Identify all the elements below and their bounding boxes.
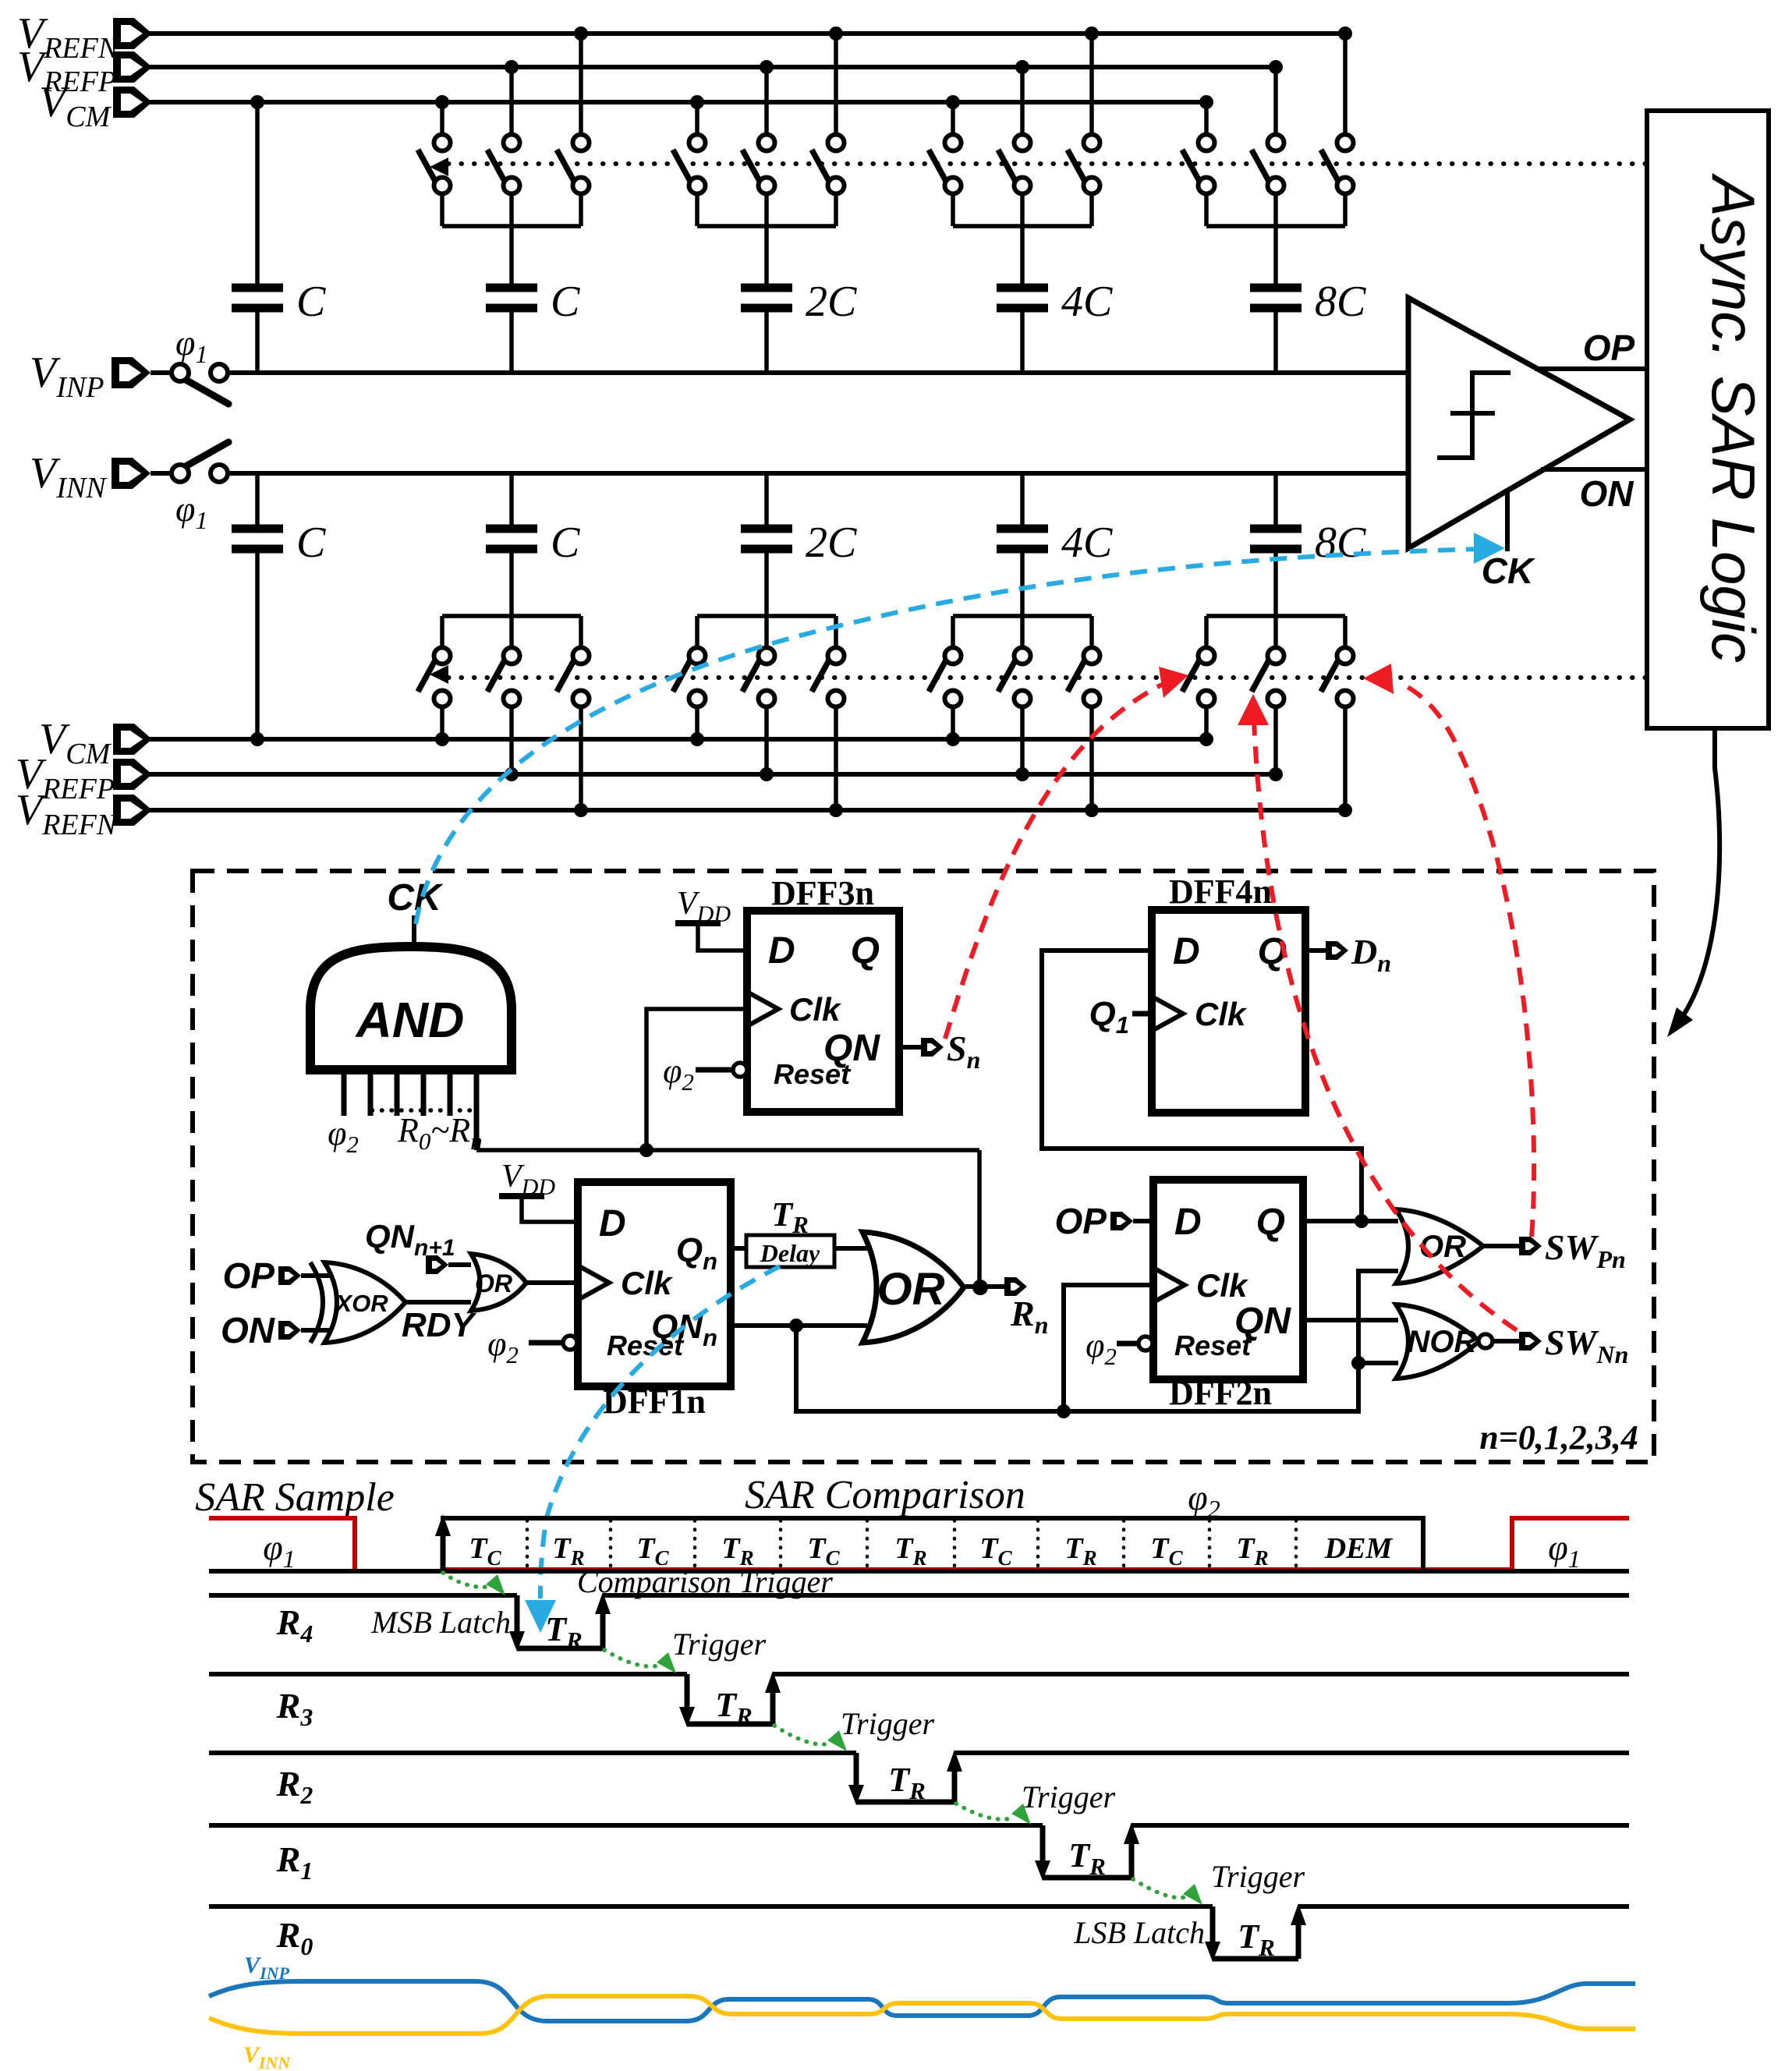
capacitor 2C (top) [741, 278, 857, 373]
svg-text:ON: ON [1580, 473, 1634, 514]
comparison box [443, 1518, 1423, 1571]
wire Delay to OR2 [834, 1246, 867, 1251]
blue dashed arrow Delay to timing R4 [525, 1266, 780, 1633]
switch group for 8C (bottom) [1182, 553, 1354, 817]
switch group for C2 (bottom) [418, 553, 590, 817]
svg-text:C: C [296, 278, 326, 326]
phi1 waveform (red) [209, 1518, 1629, 1571]
DFF2n [1153, 1180, 1303, 1412]
svg-text:DFF2n: DFF2n [1169, 1374, 1272, 1412]
svg-text:Clk: Clk [1196, 1267, 1249, 1304]
svg-text:D: D [1174, 1202, 1202, 1243]
capacitor 8C (bottom) [1250, 473, 1366, 567]
input Q1 (DFF4n clock) [1089, 995, 1152, 1039]
capacitor 4C (bottom) [997, 473, 1113, 567]
dotted marks between AND inputs [372, 1108, 476, 1113]
svg-text:XOR: XOR [334, 1290, 388, 1317]
wire CK input of comparator [1505, 490, 1510, 551]
svg-text:SAR Comparison: SAR Comparison [745, 1473, 1025, 1517]
node VREFN (bottom rail) [113, 795, 1345, 826]
row R3 waveform [209, 1671, 1629, 1727]
switch group for C2 (top) [418, 27, 590, 284]
svg-text:R0~Rn: R0~Rn [397, 1111, 483, 1155]
node VREFP (bottom rail) [113, 759, 1276, 790]
wire to NOR lower input [1358, 1361, 1398, 1365]
green trigger arrow 4 [956, 1804, 1031, 1825]
svg-text:Async. SAR Logic: Async. SAR Logic [1699, 173, 1768, 663]
svg-text:4C: 4C [1061, 278, 1113, 326]
row R0 waveform [209, 1903, 1629, 1962]
gate OR (SWPn) [1396, 1209, 1483, 1283]
svg-text:Trigger: Trigger [1211, 1859, 1305, 1894]
wire Rn bus to AND [476, 1143, 979, 1157]
svg-text:D: D [1173, 931, 1200, 972]
capacitor 4C (top) [997, 278, 1113, 373]
sampling switch phi1 (VINN) [172, 442, 228, 482]
svg-text:Clk: Clk [621, 1265, 674, 1301]
svg-text:Trigger: Trigger [1022, 1779, 1115, 1814]
svg-text:DEM: DEM [1324, 1532, 1394, 1565]
node VCM (top rail) [113, 87, 1206, 118]
svg-text:Q: Q [851, 930, 880, 972]
output pin SWNn [1493, 1322, 1628, 1368]
svg-text:NOR: NOR [1408, 1325, 1477, 1359]
green trigger arrow 5 [1133, 1879, 1202, 1905]
reset phi2 (DFF1n) [487, 1325, 577, 1368]
supply VDD (DFF3n) [675, 886, 747, 951]
svg-text:AND: AND [355, 992, 465, 1048]
svg-text:Delay: Delay [760, 1239, 820, 1267]
wire VINN bottom plate line [228, 471, 1408, 476]
input pin OP (XOR) [223, 1255, 334, 1296]
wire XOR out to OR [405, 1300, 471, 1305]
reset phi2 (DFF2n) [1085, 1326, 1153, 1370]
svg-text:Trigger: Trigger [841, 1706, 934, 1741]
row R2 waveform [209, 1750, 1629, 1805]
svg-text:OR: OR [877, 1264, 945, 1315]
blue dashed arrow CK to comparator [416, 533, 1505, 924]
wire DFF2n Q to OR3 [1303, 1214, 1398, 1228]
gate AND [310, 947, 512, 1070]
switch group for 8C (top) [1182, 27, 1354, 284]
output pin SWPn [1481, 1227, 1626, 1273]
svg-text:CK: CK [1482, 550, 1535, 591]
reset phi2 (DFF3n) [663, 1052, 747, 1096]
svg-text:4C: 4C [1061, 519, 1113, 567]
DFF1n [578, 1182, 731, 1421]
svg-text:LSB Latch: LSB Latch [1073, 1915, 1205, 1950]
node VREFN (top rail) [113, 18, 1345, 49]
svg-text:8C: 8C [1315, 278, 1366, 326]
svg-text:OP: OP [1055, 1201, 1107, 1241]
waveform VINP (blue) [209, 1981, 1635, 2021]
capacitor C1 (top) [232, 278, 326, 373]
switch group for 4C (bottom) [929, 553, 1100, 817]
svg-text:Clk: Clk [1195, 996, 1248, 1032]
svg-text:2C: 2C [806, 278, 857, 326]
row R1 waveform [209, 1822, 1629, 1881]
input pin VINN [30, 449, 172, 504]
input pin OP (DFF2n) [1055, 1201, 1153, 1241]
AND input stubs [344, 1074, 476, 1150]
dashed box (bit cell) [193, 871, 1654, 1462]
wire VINP top plate line [228, 370, 1408, 375]
green trigger arrow 2 [604, 1650, 676, 1673]
gate OR (Rn generator) [862, 1232, 964, 1343]
capacitor C2 (top) [486, 278, 580, 373]
svg-text:OR: OR [1419, 1230, 1466, 1264]
baseline row phi [209, 1569, 1629, 1574]
svg-text:Reset: Reset [1174, 1329, 1252, 1361]
cell separators (dotted) [527, 1521, 1296, 1569]
output pin Rn [965, 1277, 1048, 1339]
svg-text:CK: CK [387, 877, 444, 919]
sampling switch phi1 (VINP) [172, 364, 228, 404]
switch group for 2C (bottom) [673, 553, 845, 817]
selector dotted line (top switch bank) [430, 158, 1647, 176]
green trigger arrow 3 [774, 1726, 847, 1751]
svg-text:C: C [551, 519, 580, 567]
capacitor C2 (bottom) [486, 473, 580, 567]
junction QNn bus / DFF2n clk [1057, 1404, 1071, 1418]
svg-text:DFF3n: DFF3n [771, 874, 874, 912]
svg-text:Q: Q [1256, 1202, 1285, 1243]
wire VCM to capacitor C1 top [250, 95, 264, 284]
input pin VINP [30, 349, 172, 404]
wire ON output [1541, 467, 1647, 472]
comparison trigger up arrow [435, 1514, 451, 1571]
svg-text:C: C [551, 278, 580, 326]
svg-text:DFF4n: DFF4n [1169, 873, 1272, 911]
gate OR (ready) [471, 1254, 526, 1311]
delay block TR [746, 1195, 834, 1267]
input pin QNn+1 [365, 1218, 471, 1274]
svg-text:ON: ON [221, 1310, 275, 1351]
row R4 waveform [209, 1592, 1629, 1651]
svg-text:OR: OR [475, 1269, 512, 1297]
svg-text:Reset: Reset [774, 1058, 852, 1090]
wire DFF2n QN to NOR [1303, 1318, 1398, 1322]
red dashed arrow SWNn to bottom switch (middle) [1238, 694, 1517, 1330]
wire OR out to DFF1n Clk [526, 1280, 578, 1285]
wire DFF4n D feedback from DFF2n Q [1042, 951, 1362, 1221]
svg-text:MSB Latch: MSB Latch [370, 1605, 511, 1640]
wire bus to DFF3n Clk [646, 1009, 747, 1150]
gate NOR (SWNn) [1396, 1305, 1493, 1379]
DFF4n [1152, 873, 1305, 1113]
junction NOR lower input [1351, 1356, 1365, 1370]
svg-text:C: C [296, 519, 326, 567]
wire OP output [1535, 366, 1647, 371]
output pin Dn [1305, 932, 1391, 977]
cell labels [469, 1532, 1393, 1570]
svg-text:D: D [599, 1203, 626, 1244]
red dashed arrow Sn to bottom switch (left) [945, 667, 1188, 1039]
capacitor 2C (bottom) [741, 473, 857, 567]
switch group for 4C (top) [929, 27, 1100, 284]
wire QNn down to lower bus [796, 1271, 1398, 1411]
selector dotted line (bottom switch bank) [430, 665, 1647, 684]
wire bus to DFF2n Clk [1064, 1285, 1153, 1411]
capacitor 8C (top) [1250, 278, 1366, 373]
svg-text:RDY: RDY [402, 1306, 477, 1344]
node VCM (bottom rail) [113, 724, 1206, 755]
switch group for 2C (top) [673, 27, 845, 284]
svg-text:OP: OP [223, 1255, 275, 1296]
input pin ON (XOR) [221, 1310, 334, 1351]
svg-text:2C: 2C [806, 519, 857, 567]
capacitor C1 (bottom) [232, 473, 326, 746]
wire Qn to Delay [731, 1246, 746, 1251]
arrow from Async SAR Logic to cell logic [1667, 728, 1719, 1037]
svg-text:SAR Sample: SAR Sample [195, 1475, 395, 1520]
svg-text:Clk: Clk [789, 991, 842, 1028]
green trigger arrow 1 [443, 1573, 505, 1595]
red dashed arrow SWPn to bottom switch (right) [1363, 664, 1534, 1237]
waveform VINN (yellow) [209, 1996, 1635, 2034]
svg-text:OP: OP [1583, 327, 1635, 368]
wire CK to AND [412, 915, 416, 947]
DFF3n [747, 874, 899, 1112]
output pin Sn [899, 1028, 980, 1074]
svg-text:Trigger: Trigger [672, 1627, 766, 1662]
gate XOR [310, 1262, 406, 1343]
supply VDD (DFF1n) [499, 1159, 578, 1222]
comparator U1 [1408, 298, 1630, 548]
svg-text:D: D [768, 930, 795, 972]
node VREFP (top rail) [113, 51, 1276, 83]
svg-text:8C: 8C [1315, 519, 1366, 567]
wire Rn feedback up to bus [977, 1150, 982, 1287]
svg-text:n=0,1,2,3,4: n=0,1,2,3,4 [1479, 1418, 1638, 1457]
wire QNn out [731, 1319, 867, 1333]
block Async. SAR Logic [1647, 111, 1769, 728]
